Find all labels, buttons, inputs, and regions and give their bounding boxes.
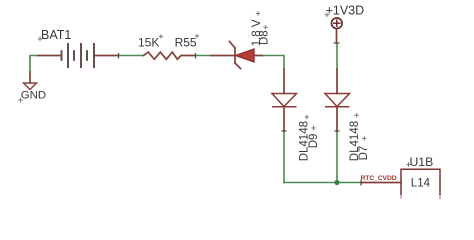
- svg-text:BAT1: BAT1: [41, 28, 71, 42]
- svg-text:D9: D9: [308, 134, 320, 149]
- svg-text:U1B: U1B: [410, 155, 434, 169]
- svg-text:15K: 15K: [138, 36, 159, 50]
- svg-text:RTC_CVDD: RTC_CVDD: [361, 175, 397, 182]
- svg-text:D8: D8: [259, 30, 271, 45]
- svg-text:GND: GND: [21, 90, 46, 102]
- svg-text:L14: L14: [411, 177, 431, 189]
- svg-text:+1V3D: +1V3D: [326, 3, 365, 17]
- svg-text:D7: D7: [358, 146, 370, 161]
- svg-text:R55: R55: [175, 36, 197, 50]
